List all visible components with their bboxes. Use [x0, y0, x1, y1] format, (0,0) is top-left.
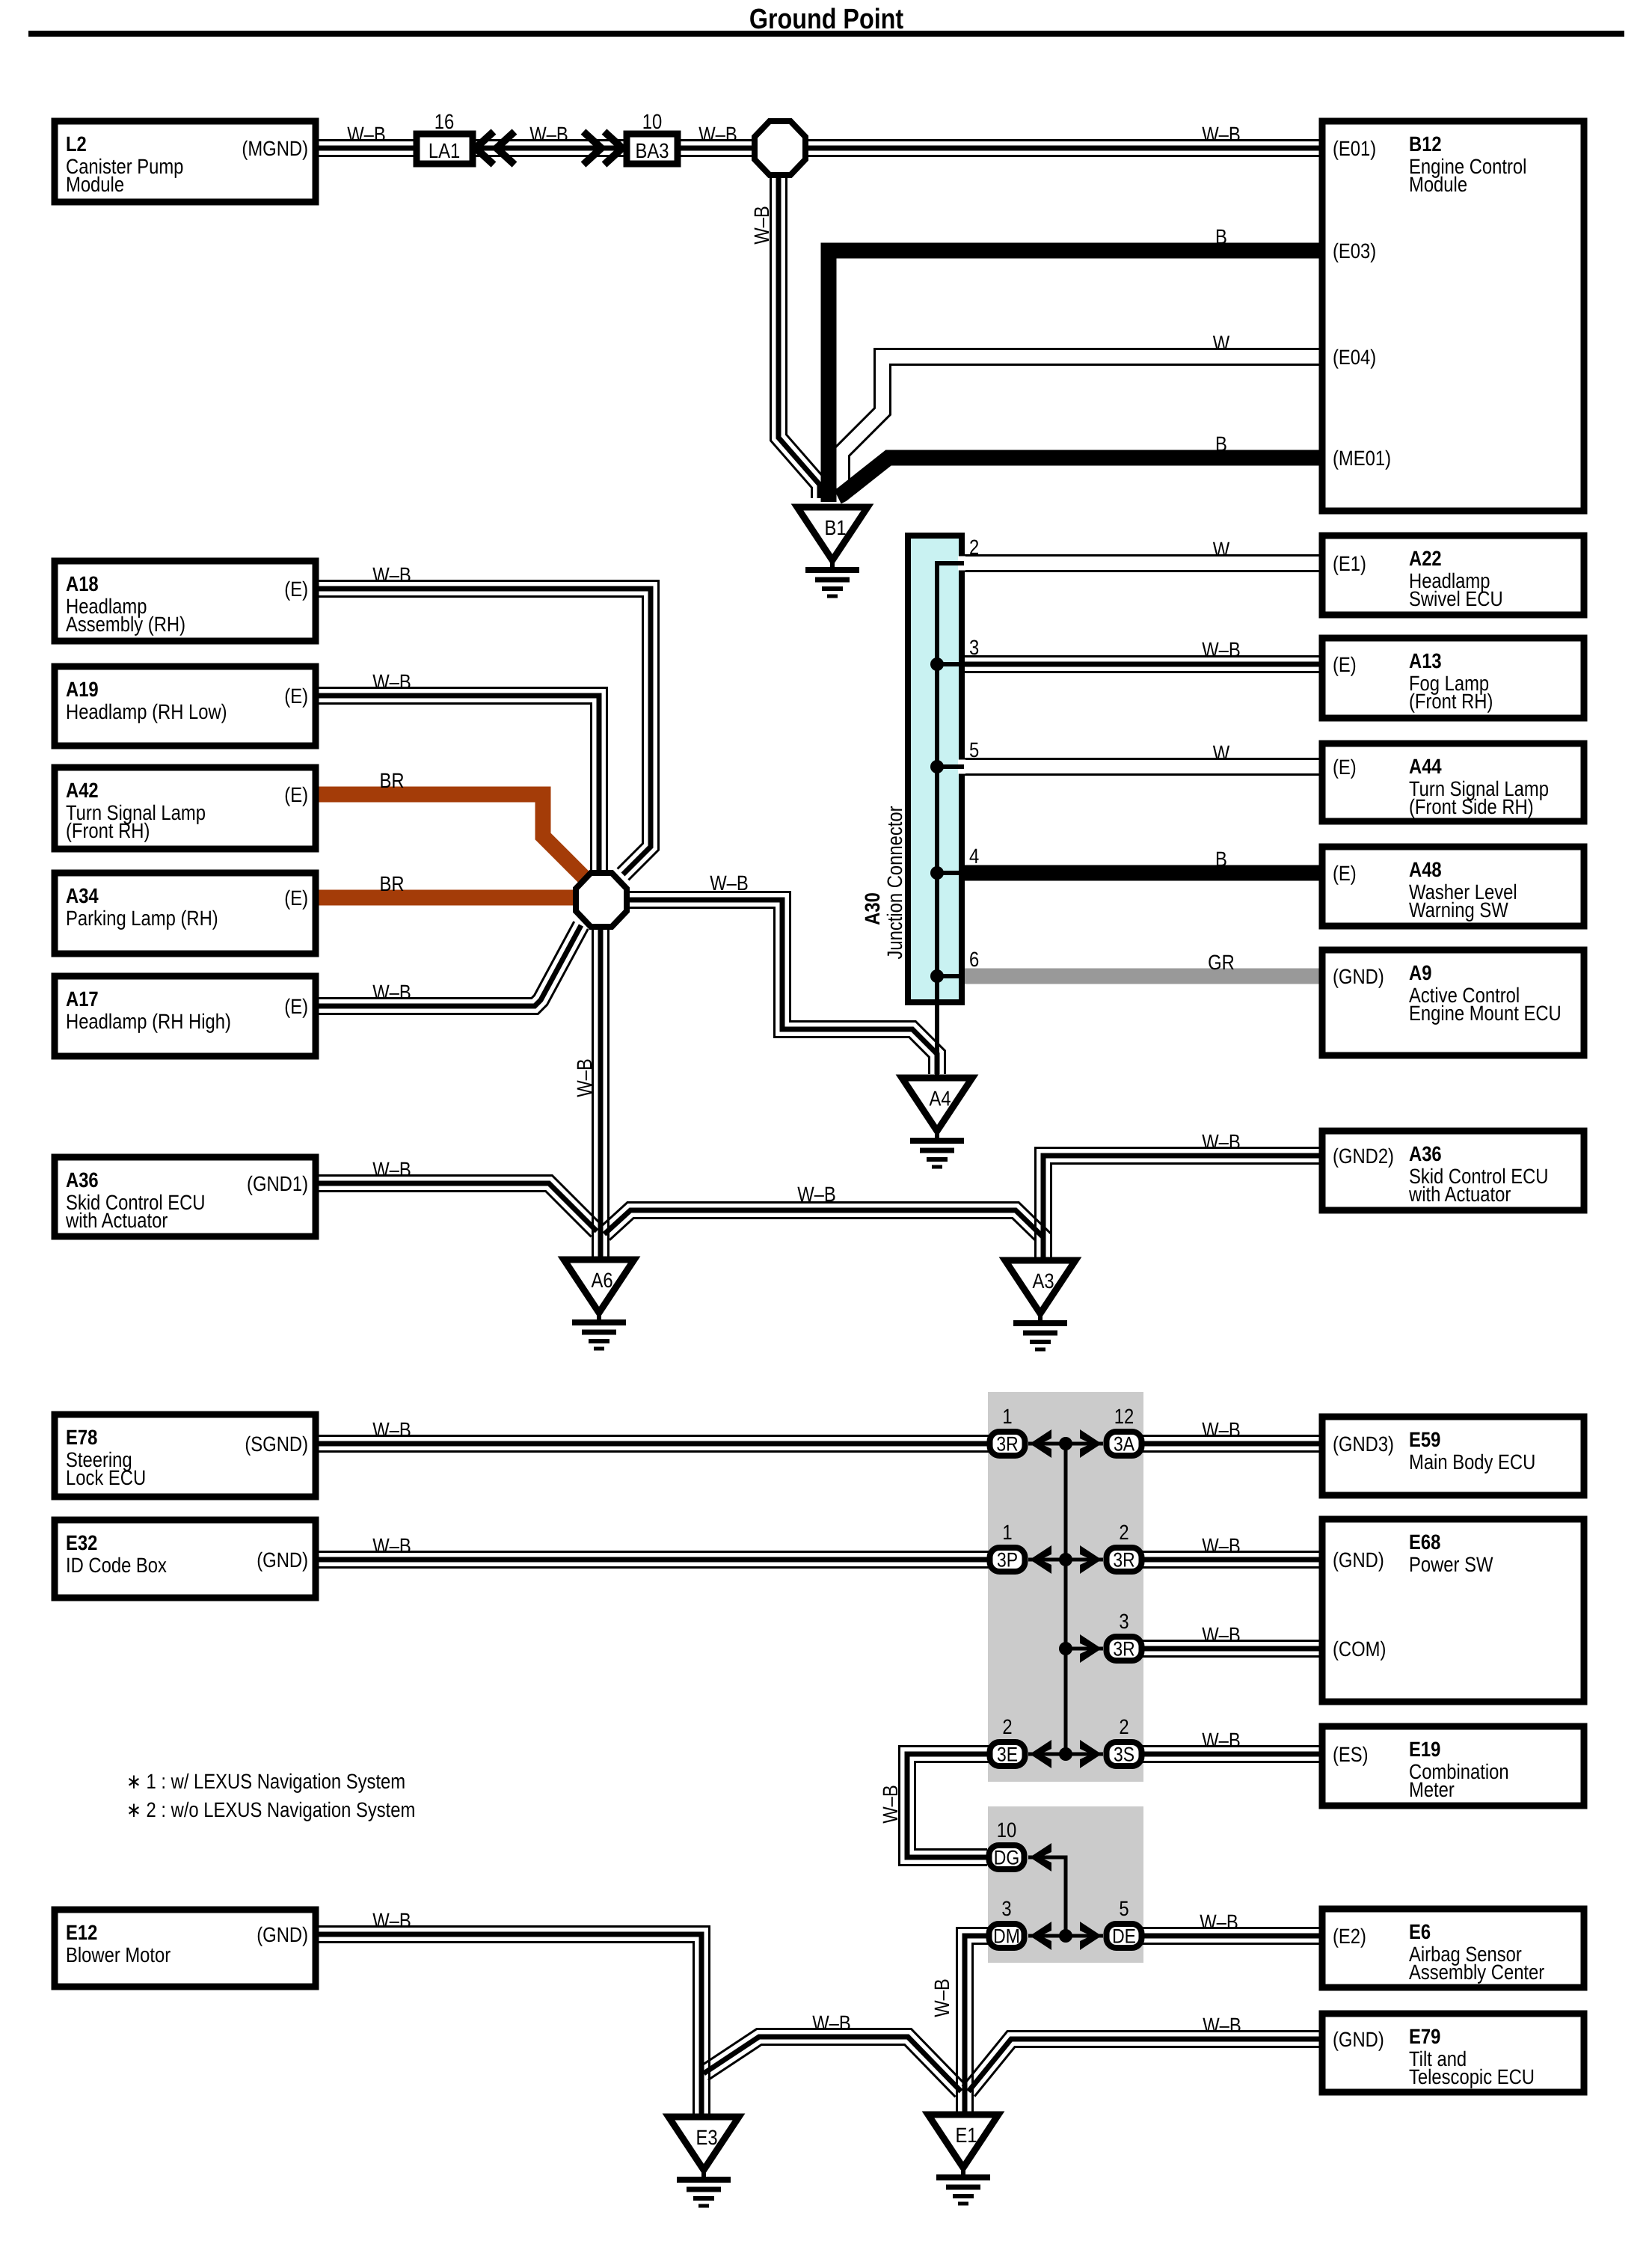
svg-text:A30: A30	[861, 892, 884, 925]
svg-text:Engine Mount ECU: Engine Mount ECU	[1409, 1002, 1562, 1025]
svg-text:Module: Module	[66, 173, 124, 196]
svg-text:1: 1	[1002, 1521, 1012, 1544]
svg-text:3: 3	[1119, 1610, 1129, 1633]
svg-text:3R: 3R	[1113, 1549, 1134, 1572]
svg-text:2: 2	[1002, 1715, 1012, 1738]
svg-text:Headlamp (RH High): Headlamp (RH High)	[66, 1010, 231, 1033]
svg-text:(GND): (GND)	[257, 1923, 308, 1946]
svg-text:2: 2	[969, 536, 979, 559]
svg-text:3P: 3P	[997, 1549, 1018, 1572]
svg-text:(E2): (E2)	[1333, 1925, 1366, 1948]
svg-text:Warning SW: Warning SW	[1409, 898, 1508, 922]
svg-text:∗ 2 : w/o LEXUS Navigation Sys: ∗ 2 : w/o LEXUS Navigation System	[126, 1798, 415, 1821]
svg-text:E19: E19	[1409, 1738, 1440, 1761]
svg-text:DM: DM	[993, 1925, 1020, 1948]
svg-text:A42: A42	[66, 779, 99, 802]
svg-text:E78: E78	[66, 1426, 97, 1449]
svg-text:W: W	[1213, 331, 1230, 355]
svg-text:3: 3	[1001, 1897, 1011, 1920]
svg-text:W–B: W–B	[1202, 1729, 1241, 1752]
svg-text:BR: BR	[379, 872, 404, 895]
svg-text:A9: A9	[1409, 961, 1431, 984]
svg-text:Blower Motor: Blower Motor	[66, 1943, 171, 1966]
svg-text:Headlamp (RH Low): Headlamp (RH Low)	[66, 700, 227, 723]
svg-text:Telescopic ECU: Telescopic ECU	[1409, 2065, 1535, 2088]
svg-text:W–B: W–B	[347, 123, 386, 146]
svg-text:E59: E59	[1409, 1428, 1440, 1451]
svg-text:W–B: W–B	[1202, 638, 1241, 661]
svg-text:3A: 3A	[1114, 1433, 1134, 1456]
svg-text:10: 10	[642, 110, 662, 133]
svg-text:W–B: W–B	[372, 1418, 411, 1441]
svg-text:3: 3	[969, 636, 979, 659]
svg-text:W–B: W–B	[372, 1909, 411, 1932]
svg-text:E79: E79	[1409, 2025, 1440, 2048]
svg-text:(E): (E)	[1333, 653, 1357, 676]
svg-text:(ME01): (ME01)	[1333, 447, 1391, 470]
svg-text:W–B: W–B	[1202, 1534, 1241, 1557]
svg-text:W–B: W–B	[750, 206, 773, 245]
svg-text:(E1): (E1)	[1333, 552, 1366, 575]
svg-text:Assembly (RH): Assembly (RH)	[66, 613, 185, 636]
svg-text:(MGND): (MGND)	[242, 137, 308, 160]
svg-text:(E03): (E03)	[1333, 239, 1376, 263]
svg-text:with Actuator: with Actuator	[65, 1209, 168, 1232]
svg-text:B1: B1	[824, 516, 846, 539]
svg-text:3E: 3E	[997, 1744, 1018, 1766]
svg-text:A22: A22	[1409, 547, 1442, 570]
svg-text:E1: E1	[955, 2124, 977, 2147]
svg-text:(GND): (GND)	[1333, 1548, 1384, 1572]
svg-text:B: B	[1215, 225, 1227, 248]
svg-text:A4: A4	[929, 1087, 951, 1110]
svg-text:12: 12	[1114, 1405, 1134, 1428]
svg-text:(GND2): (GND2)	[1333, 1144, 1394, 1168]
svg-text:W: W	[1213, 741, 1230, 764]
svg-text:W–B: W–B	[698, 123, 737, 146]
svg-text:W: W	[1213, 538, 1230, 561]
svg-text:(E): (E)	[284, 995, 308, 1018]
svg-text:A13: A13	[1409, 649, 1442, 672]
svg-text:(E): (E)	[1333, 862, 1357, 885]
svg-text:(E04): (E04)	[1333, 346, 1376, 369]
svg-text:∗ 1 : w/ LEXUS Navigation Syst: ∗ 1 : w/ LEXUS Navigation System	[126, 1770, 405, 1793]
svg-text:A17: A17	[66, 987, 99, 1011]
svg-text:GR: GR	[1208, 951, 1235, 974]
svg-text:W–B: W–B	[797, 1183, 836, 1206]
svg-text:(Front RH): (Front RH)	[1409, 690, 1493, 713]
svg-text:(GND): (GND)	[1333, 965, 1384, 988]
svg-text:W–B: W–B	[372, 670, 411, 693]
svg-text:W–B: W–B	[529, 123, 568, 146]
svg-text:B: B	[1215, 432, 1227, 456]
svg-text:(ES): (ES)	[1333, 1743, 1369, 1766]
svg-text:(GND): (GND)	[1333, 2028, 1384, 2051]
svg-text:(E01): (E01)	[1333, 137, 1376, 160]
svg-text:(Front Side RH): (Front Side RH)	[1409, 795, 1534, 818]
svg-text:3R: 3R	[1113, 1638, 1134, 1661]
svg-text:E32: E32	[66, 1531, 97, 1554]
svg-text:W–B: W–B	[1202, 1418, 1241, 1441]
svg-text:A3: A3	[1032, 1269, 1054, 1293]
svg-text:Power SW: Power SW	[1409, 1553, 1493, 1576]
svg-text:W–B: W–B	[372, 1158, 411, 1181]
svg-text:A6: A6	[591, 1269, 612, 1292]
svg-text:(E): (E)	[284, 783, 308, 806]
svg-text:W–B: W–B	[372, 981, 411, 1004]
svg-text:A19: A19	[66, 678, 99, 701]
svg-text:Junction Connector: Junction Connector	[883, 806, 906, 959]
svg-text:4: 4	[969, 844, 979, 868]
svg-text:(E): (E)	[284, 577, 308, 601]
svg-text:3S: 3S	[1114, 1744, 1134, 1766]
svg-text:A36: A36	[1409, 1142, 1442, 1165]
svg-text:(COM): (COM)	[1333, 1637, 1386, 1661]
svg-text:16: 16	[435, 110, 454, 133]
svg-text:W–B: W–B	[1202, 123, 1241, 146]
svg-text:3R: 3R	[996, 1433, 1018, 1456]
svg-text:W–B: W–B	[710, 871, 749, 895]
svg-text:ID Code Box: ID Code Box	[66, 1554, 167, 1577]
svg-text:DG: DG	[994, 1847, 1019, 1869]
svg-text:(GND3): (GND3)	[1333, 1432, 1394, 1456]
svg-text:Main Body ECU: Main Body ECU	[1409, 1450, 1535, 1474]
svg-text:E68: E68	[1409, 1530, 1440, 1554]
svg-text:Module: Module	[1409, 173, 1467, 196]
svg-text:W–B: W–B	[372, 1534, 411, 1557]
svg-text:W–B: W–B	[1202, 1623, 1241, 1646]
svg-text:5: 5	[1119, 1897, 1129, 1920]
svg-text:W–B: W–B	[1203, 2014, 1241, 2037]
svg-text:A44: A44	[1409, 755, 1442, 778]
svg-text:(GND): (GND)	[257, 1548, 308, 1572]
svg-text:B: B	[1215, 847, 1227, 871]
svg-text:B12: B12	[1409, 132, 1442, 156]
svg-text:BR: BR	[379, 769, 404, 792]
svg-text:10: 10	[997, 1818, 1016, 1842]
svg-text:DE: DE	[1112, 1925, 1136, 1948]
svg-text:with Actuator: with Actuator	[1408, 1183, 1511, 1206]
svg-text:E3: E3	[696, 2126, 717, 2149]
svg-text:E12: E12	[66, 1921, 97, 1944]
svg-text:(SGND): (SGND)	[245, 1432, 308, 1456]
svg-text:Meter: Meter	[1409, 1778, 1455, 1801]
svg-text:BA3: BA3	[636, 139, 669, 162]
svg-text:A48: A48	[1409, 858, 1442, 881]
svg-text:2: 2	[1119, 1521, 1129, 1544]
svg-text:W–B: W–B	[1200, 1910, 1238, 1934]
svg-text:(E): (E)	[284, 886, 308, 910]
svg-text:Lock ECU: Lock ECU	[66, 1466, 146, 1489]
svg-text:A34: A34	[66, 884, 99, 907]
svg-text:Swivel ECU: Swivel ECU	[1409, 587, 1503, 610]
svg-text:1: 1	[1002, 1405, 1012, 1428]
svg-text:A36: A36	[66, 1168, 99, 1192]
svg-text:(Front RH): (Front RH)	[66, 819, 150, 842]
svg-text:(E): (E)	[284, 684, 308, 708]
svg-text:W–B: W–B	[372, 563, 411, 586]
svg-text:6: 6	[969, 948, 979, 971]
svg-text:2: 2	[1119, 1715, 1129, 1738]
svg-text:W–B: W–B	[812, 2011, 851, 2035]
svg-text:E6: E6	[1409, 1920, 1431, 1943]
svg-text:W–B: W–B	[879, 1785, 902, 1824]
svg-text:(E): (E)	[1333, 755, 1357, 779]
svg-text:W–B: W–B	[930, 1978, 954, 2017]
svg-text:(GND1): (GND1)	[247, 1172, 308, 1195]
svg-text:W–B: W–B	[1202, 1130, 1241, 1153]
svg-text:W–B: W–B	[573, 1058, 596, 1097]
svg-text:LA1: LA1	[429, 139, 460, 162]
svg-text:Assembly Center: Assembly Center	[1409, 1961, 1544, 1984]
svg-text:Ground Point: Ground Point	[749, 4, 904, 35]
svg-text:A18: A18	[66, 572, 99, 595]
svg-text:L2: L2	[66, 132, 87, 156]
svg-text:Parking Lamp (RH): Parking Lamp (RH)	[66, 907, 218, 930]
svg-text:5: 5	[969, 738, 979, 761]
